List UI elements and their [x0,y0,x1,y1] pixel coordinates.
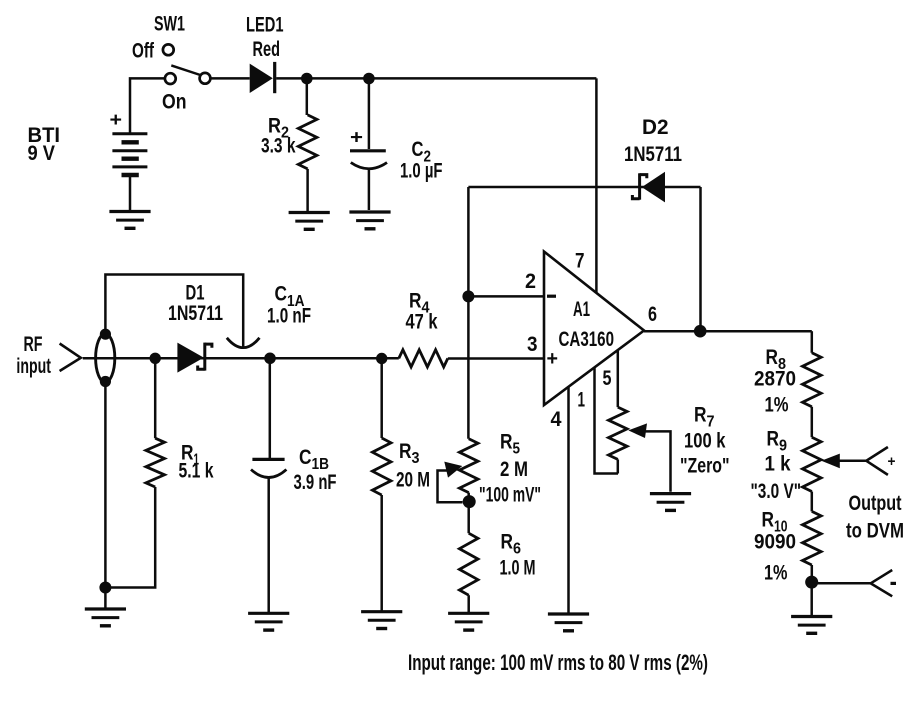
svg-text:R: R [409,290,422,313]
svg-text:+: + [350,128,363,149]
R7 wiper arrow [628,423,647,438]
svg-text:3.9 nF: 3.9 nF [294,471,337,494]
svg-text:C: C [412,138,424,161]
svg-text:C: C [299,446,312,469]
ground: R3 [361,612,402,629]
wire: R7 bottom lead [617,459,620,473]
wire: R10 ground stub [810,582,813,615]
svg-text:9090: 9090 [754,531,796,554]
wire: pin 1 lead elbow to R7 bottom [595,367,619,473]
svg-text:input: input [16,355,51,378]
wire: feedback loop to C1A top [105,275,243,347]
wire: R9 to R10 [811,492,814,512]
svg-text:R: R [694,404,707,427]
svg-text:On: On [162,91,187,114]
wire: R2 top lead [306,79,309,116]
node: junction pin2 / D2 / R5 [462,290,474,302]
wire: op-amp output pin 6 to R8 corner [644,330,812,333]
svg-text:"3.0 V": "3.0 V" [751,480,802,503]
svg-text:D2: D2 [642,116,669,139]
potentiometer R7 100k Zero (element) [609,407,628,459]
wire: pin 5 lead to R7 top [617,350,620,407]
svg-text:1: 1 [578,389,586,412]
ground: R7 wiper [650,494,691,511]
wire: R7 wiper to ground [645,431,671,491]
output plus terminal chevron [866,447,888,475]
svg-text:7: 7 [575,250,585,273]
resistor R3 20M [372,438,391,495]
node: R10 bottom junction [805,576,818,589]
battery BTI 9 V [112,134,147,175]
svg-text:R: R [767,428,780,451]
svg-text:"Zero": "Zero" [680,455,730,478]
svg-text:47 k: 47 k [406,311,438,334]
node: junction at R2 top [301,73,313,85]
wire: C2 bottom lead [368,169,371,210]
svg-text:R: R [500,431,513,454]
op-amp A1 CA3160 triangle [544,252,644,406]
wire: R10 bottom lead [811,565,814,582]
wire: R3 bottom lead [380,495,383,611]
wire: R8 top corner lead [811,331,814,353]
svg-text:9 V: 9 V [28,142,56,165]
wire: R9 wiper to plus terminal [839,460,866,463]
svg-text:R: R [762,509,775,532]
LED LED1 Red (diode triangle) [250,64,273,93]
svg-text:R: R [501,531,514,554]
svg-text:1 k: 1 k [765,453,791,476]
wire: D2 left riser down to pin 2 node [467,187,470,296]
svg-text:2 M: 2 M [500,458,528,481]
svg-text:5: 5 [603,367,612,390]
wire: pin2 node down to R5 top [467,296,470,438]
svg-text:5.1 k: 5.1 k [179,460,214,483]
svg-text:3.3 k: 3.3 k [261,135,296,158]
wire: C1B top lead [269,358,272,458]
wire: R6 top lead [467,502,470,534]
switch SW1 pivot contact circle [200,73,211,84]
wire: op-amp pin 7 lead from top rail [595,78,598,293]
svg-text:+: + [547,348,559,370]
svg-text:R: R [399,440,412,463]
resistor R8 2870 1% [803,353,822,407]
node: input ground junction [99,582,111,594]
wire: R5 wiper loop to bottom node [438,471,463,503]
svg-text:6: 6 [513,541,521,558]
ground: pin 4 [548,614,589,631]
wire: D2 horizontal feedback line [468,186,700,189]
svg-text:Off: Off [132,40,155,63]
svg-text:to DVM: to DVM [846,520,904,543]
resistor R2 [298,115,317,169]
svg-text:SW1: SW1 [154,13,185,36]
wire: input riser below oval down to ground node [104,382,107,588]
svg-text:20 M: 20 M [396,469,430,492]
svg-text:C: C [275,283,288,306]
resistor R1 5.1k [146,438,165,487]
svg-text:RF: RF [24,333,43,356]
ground: R6 [448,613,489,630]
svg-text:1.0 µF: 1.0 µF [400,160,443,183]
svg-text:100 k: 100 k [684,430,726,453]
svg-text:1N5711: 1N5711 [168,302,223,325]
node: oval top junction [100,329,111,340]
svg-text:4: 4 [551,408,562,431]
node: R5/R6 junction [463,495,476,508]
wire: R5 bottom lead [467,493,470,501]
wire: main input line (left of R4) [83,357,399,360]
node: junction R1 top [150,353,161,364]
wire: C2 top lead [368,79,371,150]
capacitor C1B curved plate [251,470,286,478]
wire: battery positive lead up to switch SW1 [130,78,165,134]
svg-text:"100 mV": "100 mV" [479,484,541,507]
node: oval bottom junction [100,376,111,387]
wire: R3 top lead [380,359,383,439]
input coax feedthrough oval [96,334,115,382]
svg-text:7: 7 [707,414,715,431]
diode D2 schottky cathode bar [632,173,646,199]
potentiometer R5 2M "100 mV" (element) [459,439,478,493]
node: junction at C2 top [363,73,375,85]
ground: R2 [289,213,330,230]
wire: R1 top lead [154,358,157,438]
wire: LED1 cathode along top rail to pin 7 corner [276,77,596,80]
R5 wiper arrow [444,462,462,478]
resistor R4 47k (horizontal) [399,350,448,367]
svg-text:+: + [888,453,896,470]
RF input terminal chevron [60,344,81,372]
ground: R10 [791,617,832,634]
capacitor C1A curved plate [227,338,260,348]
svg-text:R: R [766,346,779,369]
node: junction C1A/C1B on input line [264,353,276,365]
capacitor C2 curved plate [351,163,387,169]
svg-text:CA3160: CA3160 [559,328,615,351]
svg-text:1%: 1% [765,394,789,417]
svg-text:1%: 1% [764,562,788,585]
node: junction R3/R4 [376,353,387,364]
wire: pin 4 lead to ground [567,387,570,613]
wire: R2 bottom lead [306,169,309,212]
svg-text:2870: 2870 [754,368,796,391]
svg-text:1.0 M: 1.0 M [500,557,536,580]
resistor R10 9090 1% [803,511,822,565]
wire: D2 right riser down to output node [699,187,702,331]
wire: pin 2 inverting input lead [468,295,544,298]
LED LED1 cathode bar [273,62,276,93]
op-amp minus sign [547,295,556,298]
R9 wiper arrow [821,454,840,469]
svg-text:5: 5 [513,441,521,458]
wire: C1B bottom lead [267,478,270,613]
wire: bottom node to minus terminal [812,582,871,585]
wire: input ground stub [104,588,107,608]
wire: battery negative lead to ground [129,177,132,211]
svg-text:A1: A1 [573,298,590,321]
svg-text:6: 6 [648,303,657,326]
wire: R6 bottom lead [467,595,470,612]
svg-text:Input range: 100 mV rms to 80: Input range: 100 mV rms to 80 V rms (2%) [408,650,708,675]
svg-text:3: 3 [412,450,420,467]
switch SW1 Off contact circle [163,44,174,55]
ground: input [85,609,126,626]
svg-text:+: + [110,110,123,131]
switch SW1 lever arm [171,65,200,75]
output minus terminal chevron [871,570,893,596]
ground: C2 [349,212,390,229]
svg-text:LED1: LED1 [246,14,284,37]
wire: R8 to R9 [811,407,814,438]
svg-text:1.0 nF: 1.0 nF [267,305,311,328]
svg-text:2: 2 [525,270,536,293]
wire: input line from R4 to pin 3 [448,357,544,360]
potentiometer R9 1k "3.0 V" (element) [803,437,822,491]
resistor R6 1.0M [459,533,478,595]
wire: R1 bottom lead to input ground node [105,487,155,588]
output minus sign [891,582,897,585]
capacitor C1B top plate [252,458,284,461]
diode D1 schottky cathode bar [198,343,212,371]
svg-text:1N5711: 1N5711 [624,143,682,166]
diode D2 1N5711 (triangle) [642,172,665,203]
svg-text:3: 3 [527,333,538,356]
ground: C1B [248,613,289,630]
switch SW1 On contact circle [165,73,176,84]
node: output junction [694,325,707,338]
ground: battery [109,212,150,229]
diode D1 1N5711 (triangle) [177,343,203,373]
svg-text:Output: Output [849,492,902,515]
wire: switch SW1 to LED1 anode [211,77,250,80]
svg-text:Red: Red [253,38,281,61]
capacitor C2 top plate [350,149,386,152]
